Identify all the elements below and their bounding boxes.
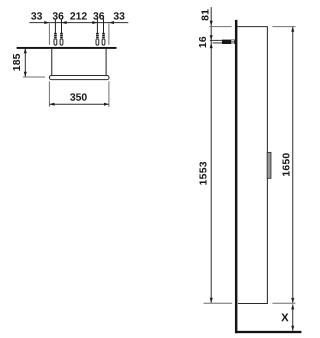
screw 3 (top view): [96, 19, 99, 46]
extension line: cabinet bottom to dim column: [204, 302, 233, 304]
350 width: extension line right: [108, 81, 110, 107]
X dimension column (cabinet bottom to floor): [292, 304, 294, 330]
arrow: right 33 pointing left at x=108.9: [109, 21, 114, 24]
screw 1 (top view): [54, 19, 57, 46]
svg-text:33: 33: [31, 11, 43, 22]
floor line (thick horizontal): [235, 331, 301, 333]
left dimension column (81 / 16 / 1553): [210, 7, 212, 303]
arrow up (1650 top): [291, 27, 294, 32]
arrow down (1650 bottom): [291, 298, 294, 303]
svg-text:185: 185: [12, 53, 23, 71]
cabinet right side wall (top view): [105, 49, 107, 76]
right dimension column (1650): [292, 27, 294, 303]
arrow: 212 right end pointing right at x=97.4: [92, 21, 97, 24]
door handle (side view): [267, 152, 271, 178]
extension line: cabinet top to dim column: [209, 26, 231, 28]
wall line (top view, thick horizontal): [17, 47, 117, 49]
185 depth dimension line: [24, 48, 26, 76]
svg-text:X: X: [281, 312, 289, 324]
arrow down (185 bottom): [24, 72, 27, 77]
350 width: extension line left: [48, 81, 50, 107]
svg-text:33: 33: [113, 11, 125, 22]
cabinet front edge (side view): [266, 27, 268, 304]
svg-text:350: 350: [70, 93, 88, 104]
arrow: 212 left end pointing left at x=61.5: [62, 21, 67, 24]
cabinet top edge (side view): [237, 26, 268, 28]
dimension line (33/36/212/36/33 chain): [29, 22, 128, 24]
cabinet bottom edge (side view): [238, 303, 268, 305]
wall / back panel line (thick vertical): [235, 20, 237, 333]
extension line: cabinet bottom to 1650 column: [272, 302, 295, 304]
extension line right (350 width, right edge): [108, 23, 110, 44]
arrow up (185 top): [24, 48, 27, 53]
arrow: left 33 pointing right at x=49.4: [44, 21, 49, 24]
svg-text:36: 36: [52, 11, 64, 22]
arrow right (350): [104, 103, 109, 106]
arrow down (81 top end, at cabinet top line): [210, 21, 213, 26]
svg-text:81: 81: [200, 9, 211, 21]
arrow left (350): [49, 103, 54, 106]
screw 2 (top view): [60, 19, 63, 46]
350 dimension line: [49, 103, 109, 105]
arrow down (81 bottom / 16 top, at rail top): [210, 35, 213, 40]
svg-text:16: 16: [198, 36, 209, 48]
door front panel (top view, rounded bar): [49, 76, 109, 80]
extension line (door bottom level, left): [23, 76, 45, 78]
svg-text:212: 212: [70, 11, 88, 22]
arrow up (16 bottom / 1553 top, at rail bottom): [210, 43, 213, 48]
cabinet left side wall (top view): [51, 49, 53, 76]
screw 4 (top view): [102, 19, 105, 46]
extension line left (350 width, left edge): [48, 23, 50, 44]
svg-text:1650: 1650: [281, 153, 292, 177]
arrow down (1553 bottom, at cabinet bottom): [210, 298, 213, 303]
mounting rail screw (side view, horizontal): [210, 40, 235, 44]
extension line: cabinet top to 1650 column: [272, 26, 295, 28]
arrow up (X top): [291, 304, 294, 309]
svg-text:1553: 1553: [199, 161, 210, 185]
arrow down (X bottom, at floor): [291, 326, 294, 331]
